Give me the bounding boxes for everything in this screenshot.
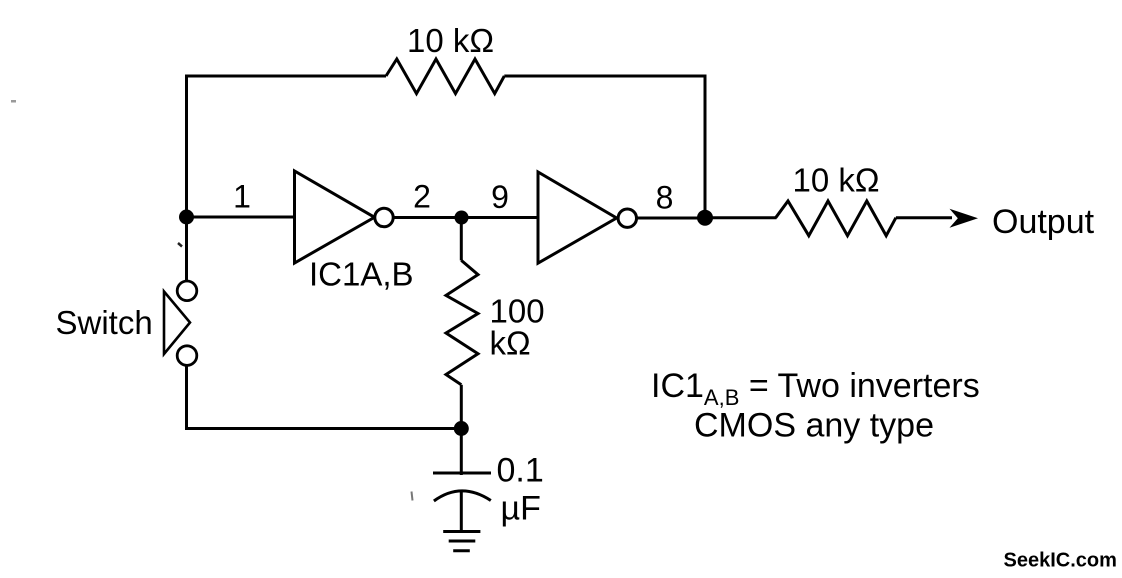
svg-text:CMOS any type: CMOS any type bbox=[694, 407, 934, 445]
resistor R3 10 kOhm (output, horizontal zigzag) bbox=[776, 201, 896, 236]
scan artifact: tick left of capacitor bbox=[412, 492, 413, 501]
wire: node1 to IC1A input bbox=[187, 216, 297, 219]
node N2: junction pins 2/9 bbox=[455, 211, 469, 225]
inverter IC1A (triangle) bbox=[295, 171, 375, 263]
resistor R1 10 kOhm (feedback, horizontal zigzag) bbox=[386, 59, 504, 94]
svg-text:µF: µF bbox=[501, 490, 541, 528]
svg-text:10 kΩ: 10 kΩ bbox=[407, 22, 494, 59]
resistor R2 100 kOhm (vertical zigzag) bbox=[446, 260, 478, 384]
switch blade (triangle actuator) bbox=[164, 292, 190, 355]
svg-text:10 kΩ: 10 kΩ bbox=[792, 162, 879, 199]
wire: node2 to IC1B input bbox=[462, 216, 540, 219]
svg-text:9: 9 bbox=[491, 179, 509, 215]
inverter IC1B output bubble bbox=[618, 209, 636, 227]
wire: capacitor C1 to ground bbox=[460, 491, 463, 532]
ground symbol (three bars) bbox=[443, 532, 480, 551]
scan artifact: small dash top-left bbox=[11, 100, 16, 103]
switch top contact bbox=[177, 281, 197, 301]
wire: IC1B bubble to node3 bbox=[636, 217, 705, 220]
svg-text:kΩ: kΩ bbox=[490, 325, 531, 362]
wire: node3 to output resistor bbox=[705, 216, 777, 219]
wire: output resistor to arrowhead bbox=[896, 216, 952, 219]
wire: feedback left vertical + top-left segment bbox=[187, 76, 387, 217]
inverter IC1A output bubble bbox=[375, 208, 393, 226]
svg-text:0.1: 0.1 bbox=[497, 452, 544, 490]
capacitor C1 bottom plate (curved) bbox=[434, 491, 491, 501]
svg-text:8: 8 bbox=[656, 180, 674, 216]
inverter IC1B (triangle) bbox=[538, 172, 617, 263]
wire: node1 down to switch top contact bbox=[185, 217, 188, 281]
wire: resistor R2 to node4 bbox=[460, 385, 463, 429]
svg-text:IC1A,B: IC1A,B bbox=[309, 256, 414, 293]
capacitor C1 top plate bbox=[433, 472, 491, 475]
svg-text:Output: Output bbox=[992, 203, 1095, 241]
svg-text:SeekIC.com: SeekIC.com bbox=[1004, 550, 1117, 572]
svg-text:1: 1 bbox=[233, 179, 251, 215]
svg-text:IC1A,B = Two inverters: IC1A,B = Two inverters bbox=[651, 367, 980, 410]
wire: feedback top-right segment + right vertical down to output node bbox=[504, 76, 705, 218]
svg-text:2: 2 bbox=[413, 179, 431, 215]
wire: node4 down to capacitor C1 bbox=[460, 429, 463, 476]
switch bottom contact bbox=[177, 346, 197, 366]
wire: node2 down to resistor R2 bbox=[460, 218, 463, 261]
node N1: input junction bbox=[179, 210, 194, 225]
node N3: output junction pin 8 bbox=[697, 210, 713, 226]
svg-text:Switch: Switch bbox=[56, 304, 153, 341]
wire: IC1A bubble to node2 bbox=[393, 216, 462, 219]
wire: switch bottom contact down and along bottom to node4 bbox=[187, 365, 462, 428]
node N4: bottom junction bbox=[454, 421, 469, 436]
arrowhead of output bbox=[950, 209, 979, 228]
scan artifact: tick below node1 bbox=[178, 243, 182, 247]
